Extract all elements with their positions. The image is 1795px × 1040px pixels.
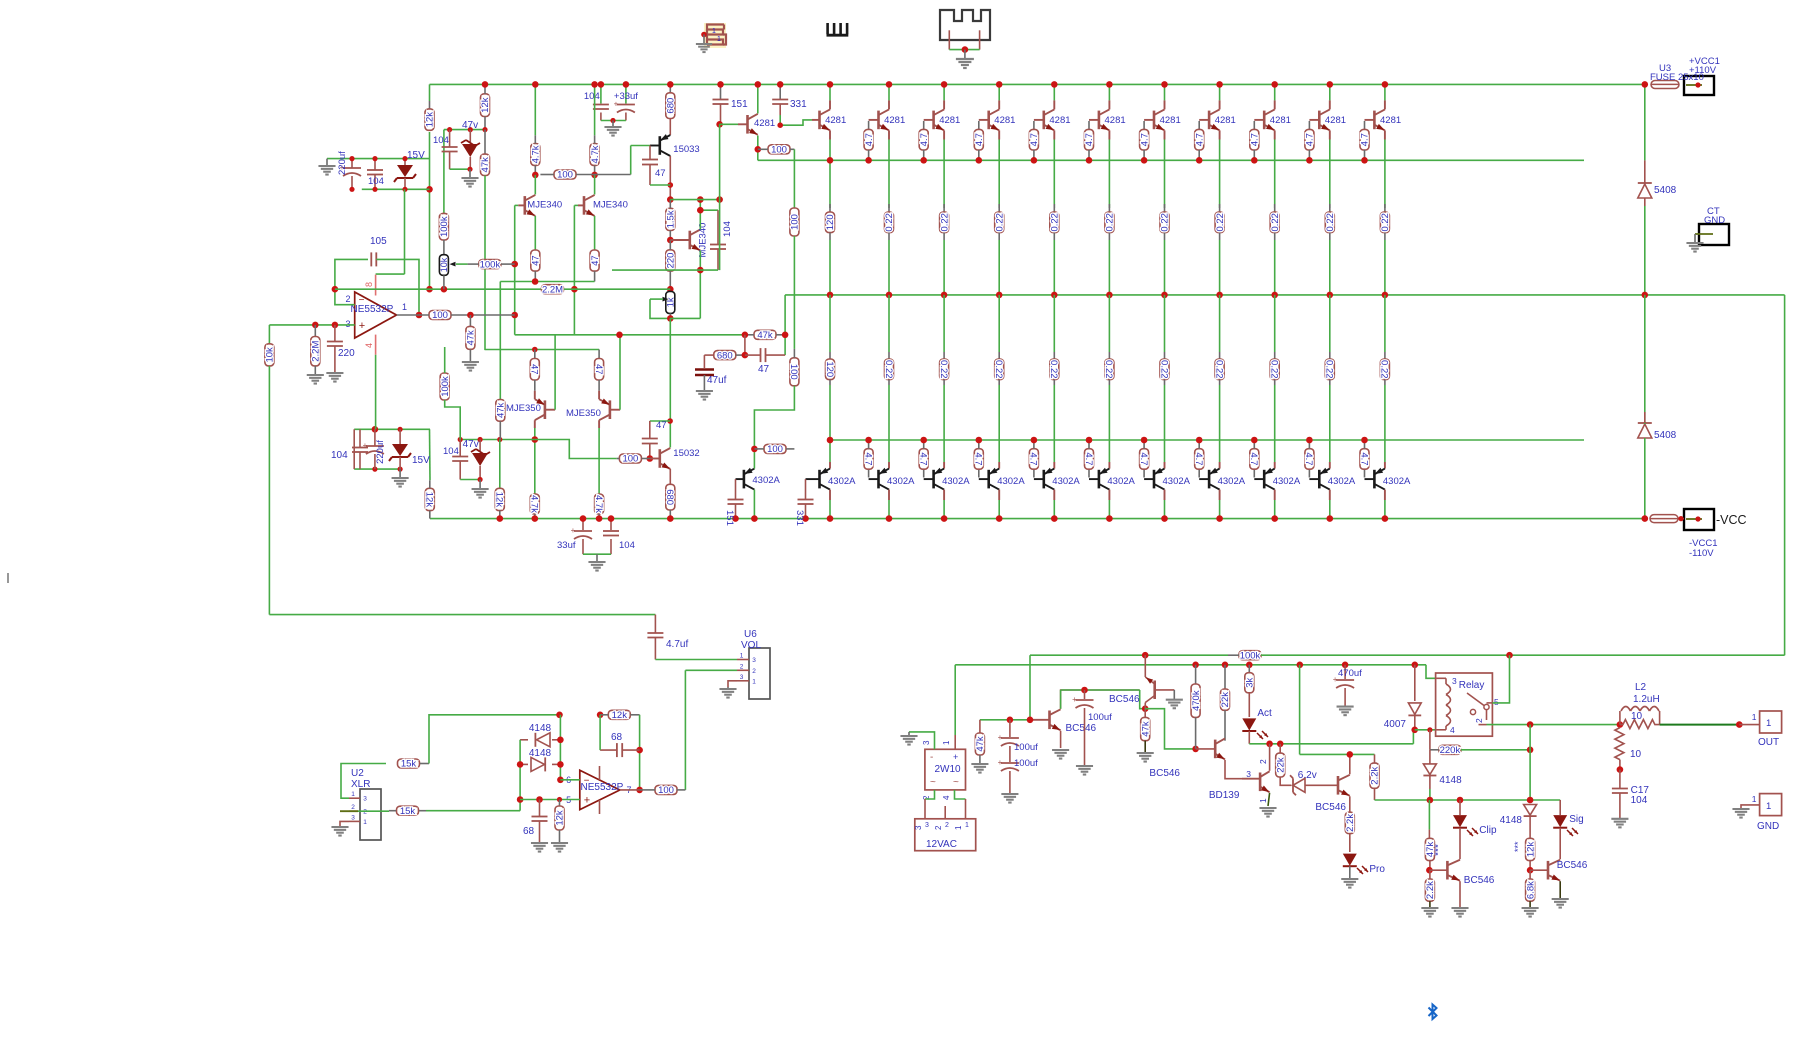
svg-text:4.7k: 4.7k [590, 145, 601, 163]
svg-text:12k: 12k [424, 492, 435, 508]
svg-text:U6: U6 [744, 629, 757, 640]
svg-text:22k: 22k [1275, 757, 1286, 773]
svg-text:4302A: 4302A [997, 476, 1025, 487]
svg-text:-VCC: -VCC [1716, 513, 1747, 527]
svg-text:1.5k: 1.5k [666, 210, 677, 228]
svg-text:1: 1 [740, 653, 744, 660]
svg-text:220uf: 220uf [337, 151, 348, 175]
svg-text:4.7k: 4.7k [593, 495, 604, 513]
svg-text:+: + [998, 733, 1003, 742]
svg-text:1: 1 [752, 678, 756, 685]
svg-text:BC546: BC546 [1315, 802, 1346, 813]
svg-text:100uf: 100uf [1088, 712, 1112, 723]
svg-text:151: 151 [724, 510, 735, 526]
svg-text:4.7: 4.7 [1194, 133, 1205, 146]
svg-text:12VAC: 12VAC [926, 839, 957, 850]
svg-text:1: 1 [351, 791, 355, 798]
svg-text:47: 47 [758, 364, 770, 375]
svg-text:10k: 10k [439, 257, 449, 272]
svg-text:12k: 12k [480, 97, 491, 113]
svg-text:15k: 15k [401, 759, 417, 770]
svg-text:104: 104 [1631, 795, 1648, 806]
svg-text:2.2M: 2.2M [542, 284, 563, 295]
svg-text:BD139: BD139 [1209, 790, 1240, 801]
svg-text:***: *** [1434, 844, 1445, 856]
svg-text:3: 3 [1246, 769, 1251, 779]
svg-text:4.7k: 4.7k [531, 145, 542, 163]
svg-text:5: 5 [1494, 697, 1499, 707]
svg-text:2: 2 [945, 822, 949, 829]
svg-text:GND: GND [1757, 821, 1779, 832]
svg-text:4.7: 4.7 [1083, 452, 1094, 465]
svg-text:L2: L2 [1635, 682, 1647, 693]
svg-text:3: 3 [914, 825, 923, 830]
svg-text:220uf: 220uf [375, 440, 386, 464]
svg-text:220: 220 [666, 253, 677, 269]
svg-text:4148: 4148 [529, 748, 552, 759]
svg-text:10: 10 [1630, 749, 1642, 760]
svg-text:OUT: OUT [1758, 737, 1779, 748]
svg-text:VOL: VOL [741, 640, 761, 651]
svg-text:22k: 22k [1220, 692, 1231, 708]
svg-text:47: 47 [656, 420, 667, 431]
svg-text:0.22: 0.22 [1160, 213, 1171, 232]
svg-text:12k: 12k [425, 112, 436, 128]
svg-text:680: 680 [717, 350, 733, 361]
svg-text:6.2v: 6.2v [1298, 770, 1317, 781]
svg-text:2: 2 [346, 294, 351, 304]
svg-text:4.7: 4.7 [1029, 133, 1040, 146]
svg-text:15k: 15k [400, 806, 416, 817]
svg-text:***: *** [1513, 841, 1523, 852]
svg-text:4302A: 4302A [1328, 476, 1356, 487]
svg-text:68: 68 [523, 826, 535, 837]
svg-text:4.7: 4.7 [1303, 452, 1314, 465]
svg-text:4281: 4281 [825, 115, 846, 126]
svg-text:0.22: 0.22 [1158, 360, 1169, 379]
svg-text:6.8k: 6.8k [1525, 881, 1536, 899]
svg-text:2: 2 [740, 663, 744, 670]
svg-text:4.7: 4.7 [1028, 452, 1039, 465]
svg-text:0.22: 0.22 [939, 213, 950, 232]
svg-text:100k: 100k [439, 216, 450, 237]
svg-text:104: 104 [619, 540, 635, 551]
svg-text:15V: 15V [412, 455, 430, 466]
svg-text:0.22: 0.22 [938, 360, 949, 379]
svg-text:104: 104 [584, 91, 600, 102]
svg-text:100uf: 100uf [1014, 758, 1038, 769]
svg-text:12k: 12k [494, 492, 505, 508]
svg-text:12k: 12k [612, 710, 628, 721]
svg-text:+: + [584, 795, 590, 807]
svg-text:Pro: Pro [1369, 864, 1385, 875]
svg-text:−: − [584, 776, 590, 787]
svg-text:47: 47 [531, 255, 542, 266]
svg-text:1: 1 [1752, 794, 1757, 804]
svg-text:Clip: Clip [1479, 825, 1497, 836]
svg-text:4.7: 4.7 [1360, 133, 1371, 146]
svg-text:4281: 4281 [1105, 115, 1126, 126]
svg-text:47k: 47k [466, 330, 477, 346]
svg-text:2: 2 [351, 804, 355, 811]
svg-text:Relay: Relay [1459, 680, 1485, 691]
svg-text:4: 4 [1450, 725, 1455, 735]
svg-text:4.7: 4.7 [1139, 133, 1150, 146]
svg-text:0.22: 0.22 [1213, 360, 1224, 379]
svg-text:10k: 10k [265, 347, 276, 363]
svg-text:4148: 4148 [1439, 775, 1462, 786]
svg-text:100k: 100k [480, 259, 501, 270]
svg-text:4.7: 4.7 [1358, 452, 1369, 465]
svg-text:47k: 47k [1140, 721, 1151, 737]
svg-text:2: 2 [1474, 718, 1484, 723]
svg-text:4302A: 4302A [1052, 476, 1080, 487]
svg-text:220: 220 [338, 348, 355, 359]
svg-text:+: + [953, 752, 958, 762]
svg-text:47k: 47k [975, 736, 986, 752]
svg-text:100: 100 [557, 170, 573, 181]
svg-text:120: 120 [824, 361, 835, 377]
svg-text:0.22: 0.22 [1270, 213, 1281, 232]
svg-text:1: 1 [712, 28, 716, 35]
svg-text:MJE340: MJE340 [593, 200, 628, 211]
svg-text:+: + [571, 526, 576, 535]
svg-text:2.2k: 2.2k [1425, 881, 1436, 899]
svg-text:0.22: 0.22 [1105, 213, 1116, 232]
svg-text:1: 1 [363, 819, 367, 826]
svg-text:0.22: 0.22 [1050, 213, 1061, 232]
svg-text:Act: Act [1257, 708, 1272, 719]
svg-text:Sig: Sig [1569, 814, 1583, 825]
svg-text:3: 3 [922, 740, 931, 745]
svg-text:4.7uf: 4.7uf [666, 639, 688, 650]
svg-text:+: + [1333, 675, 1338, 684]
svg-text:4281: 4281 [754, 118, 775, 129]
svg-text:0.22: 0.22 [1324, 360, 1335, 379]
svg-text:100uf: 100uf [1014, 742, 1038, 753]
svg-text:BC546: BC546 [1557, 860, 1588, 871]
svg-text:0.22: 0.22 [1325, 213, 1336, 232]
svg-text:4302A: 4302A [887, 476, 915, 487]
svg-text:15033: 15033 [673, 144, 699, 155]
svg-text:2.2M: 2.2M [311, 341, 322, 362]
svg-text:0.22: 0.22 [1215, 213, 1226, 232]
svg-text:-110V: -110V [1689, 548, 1714, 559]
svg-text:1: 1 [717, 36, 721, 43]
svg-text:4.7: 4.7 [1305, 133, 1316, 146]
svg-text:47k: 47k [496, 402, 507, 418]
svg-text:4281: 4281 [1215, 115, 1236, 126]
svg-text:0.22: 0.22 [993, 360, 1004, 379]
svg-text:68: 68 [611, 732, 623, 743]
svg-text:4.7: 4.7 [864, 133, 875, 146]
svg-text:33uf: 33uf [557, 540, 576, 551]
svg-text:4007: 4007 [1384, 719, 1407, 730]
svg-text:0.22: 0.22 [884, 213, 895, 232]
svg-text:100: 100 [622, 454, 638, 465]
svg-text:3k: 3k [1245, 677, 1256, 687]
svg-text:100: 100 [790, 214, 801, 230]
svg-text:4281: 4281 [1049, 115, 1070, 126]
svg-text:1: 1 [1752, 712, 1757, 722]
svg-text:104: 104 [331, 450, 348, 461]
svg-text:-: - [930, 752, 933, 763]
svg-text:3: 3 [925, 822, 929, 829]
svg-text:4281: 4281 [939, 115, 960, 126]
svg-text:12k: 12k [555, 810, 566, 826]
svg-text:331: 331 [790, 99, 807, 110]
svg-text:3: 3 [752, 657, 756, 664]
svg-text:~: ~ [930, 777, 936, 788]
svg-text:100: 100 [432, 310, 448, 321]
svg-text:47: 47 [593, 364, 604, 375]
svg-text:1: 1 [402, 302, 407, 312]
svg-text:4302A: 4302A [1107, 476, 1135, 487]
svg-text:MJE340: MJE340 [698, 223, 709, 258]
svg-text:47k: 47k [480, 157, 491, 173]
svg-text:1: 1 [965, 822, 969, 829]
svg-text:GND: GND [1704, 215, 1725, 226]
svg-text:0.22: 0.22 [1379, 360, 1390, 379]
svg-text:1: 1 [954, 825, 963, 830]
svg-text:+110V: +110V [1689, 65, 1717, 76]
svg-text:BC546: BC546 [1109, 694, 1140, 705]
svg-text:3: 3 [740, 674, 744, 681]
svg-text:470uf: 470uf [1338, 668, 1362, 679]
svg-text:BC546: BC546 [1464, 875, 1495, 886]
svg-text:4: 4 [364, 343, 374, 348]
svg-text:100: 100 [788, 364, 799, 380]
svg-text:5408: 5408 [1654, 185, 1677, 196]
svg-text:4148: 4148 [1500, 815, 1523, 826]
svg-text:3: 3 [346, 319, 351, 329]
svg-text:104: 104 [722, 221, 733, 237]
svg-text:4148: 4148 [529, 723, 552, 734]
svg-text:4281: 4281 [884, 115, 905, 126]
svg-text:47k: 47k [757, 330, 773, 341]
svg-text:15032: 15032 [673, 448, 699, 459]
svg-text:47uf: 47uf [707, 375, 727, 386]
svg-text:100k: 100k [1240, 650, 1261, 661]
svg-text:4281: 4281 [994, 115, 1015, 126]
svg-text:8: 8 [364, 282, 374, 287]
svg-text:4.7k: 4.7k [529, 495, 540, 513]
svg-text:2: 2 [1258, 759, 1268, 764]
svg-text:10: 10 [1631, 711, 1643, 722]
svg-text:4.7: 4.7 [862, 452, 873, 465]
svg-text:BC546: BC546 [1066, 723, 1097, 734]
svg-text:2W10: 2W10 [935, 764, 962, 775]
svg-text:4302A: 4302A [942, 476, 970, 487]
svg-text:47v: 47v [462, 120, 478, 131]
svg-text:U2: U2 [351, 768, 364, 779]
svg-text:4281: 4281 [1270, 115, 1291, 126]
svg-text:4302A: 4302A [1163, 476, 1191, 487]
svg-text:1: 1 [942, 740, 951, 745]
svg-text:4.7: 4.7 [1084, 133, 1095, 146]
svg-text:BC546: BC546 [1149, 768, 1180, 779]
svg-text:4.7: 4.7 [974, 133, 985, 146]
svg-text:+: + [1072, 695, 1077, 704]
svg-text:2: 2 [934, 825, 943, 830]
svg-text:1: 1 [1766, 801, 1771, 812]
svg-text:47: 47 [590, 255, 601, 266]
svg-text:47: 47 [655, 168, 666, 179]
svg-text:MJE340: MJE340 [527, 200, 562, 211]
svg-text:4.7: 4.7 [918, 452, 929, 465]
svg-text:4.7: 4.7 [1193, 452, 1204, 465]
svg-text:4302A: 4302A [1383, 476, 1411, 487]
svg-text:680: 680 [664, 489, 675, 505]
svg-text:~: ~ [953, 777, 959, 788]
svg-text:4: 4 [942, 795, 951, 800]
svg-text:NE5532P: NE5532P [351, 304, 394, 315]
svg-text:100: 100 [767, 444, 783, 455]
svg-text:104: 104 [368, 176, 384, 187]
svg-text:3: 3 [351, 814, 355, 821]
svg-text:100: 100 [658, 785, 674, 796]
svg-text:+33uf: +33uf [614, 91, 638, 102]
svg-text:47v: 47v [463, 439, 479, 450]
svg-text:2: 2 [752, 668, 756, 675]
svg-text:MJE350: MJE350 [506, 403, 541, 414]
svg-text:15V: 15V [407, 150, 425, 161]
svg-text:0.22: 0.22 [1380, 213, 1391, 232]
svg-text:151: 151 [731, 99, 748, 110]
svg-text:4302A: 4302A [752, 475, 780, 486]
svg-text:4302A: 4302A [1218, 476, 1246, 487]
svg-text:1: 1 [1766, 718, 1771, 729]
svg-text:2.2k: 2.2k [1370, 766, 1381, 784]
svg-text:−: − [359, 295, 365, 306]
svg-text:4.7: 4.7 [1250, 133, 1261, 146]
svg-text:4281: 4281 [1380, 115, 1401, 126]
svg-text:MJE350: MJE350 [566, 408, 601, 419]
svg-text:4.7: 4.7 [1248, 452, 1259, 465]
svg-text:0.22: 0.22 [1103, 360, 1114, 379]
svg-text:1: 1 [1258, 798, 1268, 803]
svg-text:0.22: 0.22 [1269, 360, 1280, 379]
svg-text:104: 104 [443, 446, 459, 457]
svg-text:4281: 4281 [1160, 115, 1181, 126]
svg-text:0.22: 0.22 [994, 213, 1005, 232]
svg-text:+: + [998, 758, 1003, 767]
svg-text:4.7: 4.7 [973, 452, 984, 465]
svg-text:2: 2 [363, 809, 367, 816]
svg-text:100: 100 [771, 145, 787, 156]
svg-text:+: + [363, 441, 368, 450]
svg-text:120: 120 [825, 214, 836, 230]
svg-text:4281: 4281 [1325, 115, 1346, 126]
svg-text:105: 105 [370, 236, 387, 247]
svg-text:0.22: 0.22 [1048, 360, 1059, 379]
svg-text:2.2k: 2.2k [1345, 814, 1356, 832]
svg-text:5408: 5408 [1654, 430, 1677, 441]
svg-text:470k: 470k [1191, 690, 1202, 711]
svg-text:XLR: XLR [351, 779, 370, 790]
svg-text:104: 104 [433, 135, 449, 146]
svg-text:680: 680 [666, 98, 677, 114]
svg-text:4302A: 4302A [1273, 476, 1301, 487]
svg-text:1.2uH: 1.2uH [1633, 694, 1660, 705]
svg-text:+: + [359, 320, 365, 332]
svg-text:4.7: 4.7 [919, 133, 930, 146]
svg-text:3: 3 [1452, 676, 1457, 686]
svg-text:3: 3 [363, 796, 367, 803]
svg-text:4.7: 4.7 [1138, 452, 1149, 465]
svg-text:4302A: 4302A [828, 476, 856, 487]
svg-text:331: 331 [794, 510, 805, 526]
svg-text:100k: 100k [440, 376, 451, 397]
svg-text:220k: 220k [1440, 745, 1461, 756]
svg-text:47: 47 [529, 364, 540, 375]
svg-text:12k: 12k [1525, 842, 1536, 858]
svg-text:0.22: 0.22 [883, 360, 894, 379]
